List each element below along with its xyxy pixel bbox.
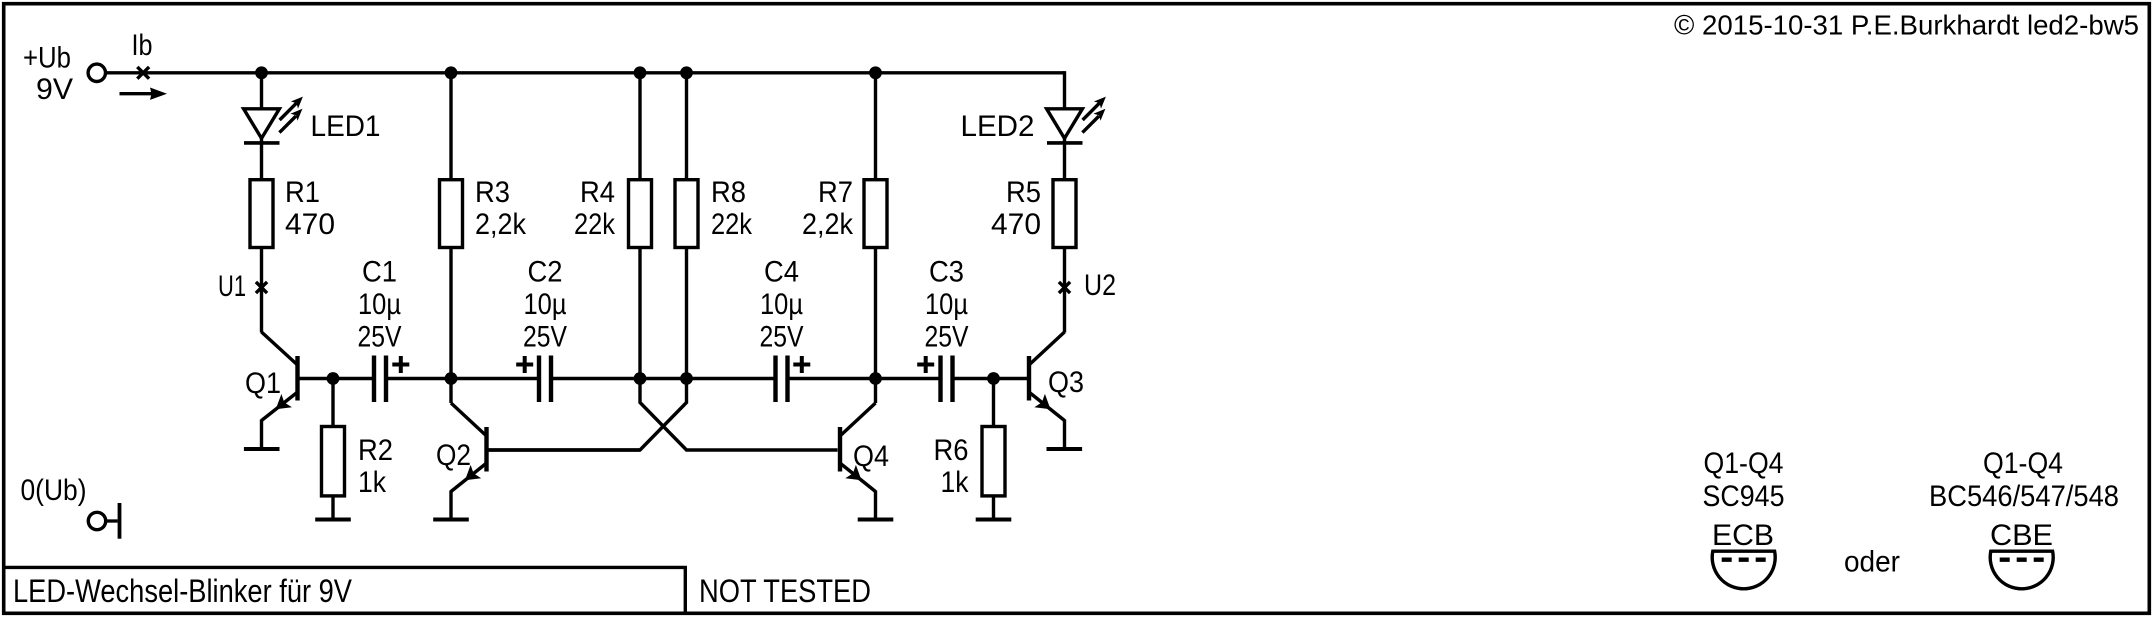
copyright: [1674, 10, 2139, 41]
label Q3: [1048, 366, 1084, 399]
node LED1 top: [255, 66, 268, 79]
polarity + of C4: [793, 356, 810, 373]
svg-text:25V: 25V: [523, 321, 567, 354]
wire R8 bottom: [685, 249, 688, 379]
node R7 top: [869, 66, 882, 79]
legend Q1-Q4 SC945: [1703, 447, 1785, 552]
wire R4 top: [638, 73, 641, 180]
ground Q4: [858, 518, 894, 522]
wire R2 top: [331, 379, 334, 427]
node R3 top: [445, 66, 458, 79]
wire rail corner to LED2: [1063, 71, 1066, 179]
current arrow Ib: [120, 88, 168, 100]
label LED1: [311, 110, 381, 143]
wire R3 bottom: [449, 249, 452, 379]
LED1 light arrow 2: [279, 109, 302, 133]
svg-text:Q3: Q3: [1048, 366, 1084, 399]
terminal 0(Ub): [88, 503, 119, 539]
LED1 diode: [244, 109, 280, 143]
svg-text:470: 470: [285, 208, 335, 241]
svg-text:LED1: LED1: [311, 110, 381, 143]
svg-text:Q1-Q4: Q1-Q4: [1983, 447, 2063, 480]
svg-text:R4: R4: [580, 176, 615, 209]
svg-text:R2: R2: [358, 434, 393, 467]
svg-text:R3: R3: [475, 176, 510, 209]
ground R2: [315, 518, 351, 522]
label R6: [934, 434, 970, 499]
label Q1: [245, 367, 281, 400]
label Ib: [132, 29, 153, 62]
label R7: [802, 176, 854, 241]
svg-text:25V: 25V: [925, 321, 969, 354]
svg-text:C3: C3: [929, 256, 964, 289]
svg-text:25V: 25V: [358, 321, 402, 354]
svg-text:R1: R1: [285, 176, 320, 209]
wire R5 to Q3 collector: [1063, 249, 1066, 333]
label Q4: [853, 440, 889, 473]
wire Q2 collector stub: [449, 379, 452, 404]
wire R4 bottom: [638, 249, 641, 379]
node R7 / Q4 collector / C4 / C3: [869, 372, 882, 385]
svg-text:C4: C4: [764, 256, 799, 289]
label R2: [358, 434, 393, 499]
LED2 light arrow 2: [1082, 109, 1105, 133]
measuring point U1 x-mark: [256, 282, 267, 293]
title text: [13, 573, 353, 609]
package outline BC546 (CBE): [1990, 551, 2053, 589]
svg-text:U2: U2: [1084, 269, 1116, 302]
svg-text:LED-Wechsel-Blinker für 9V: LED-Wechsel-Blinker für 9V: [13, 573, 353, 609]
svg-text:© 2015-10-31 P.E.Burkhardt led: © 2015-10-31 P.E.Burkhardt led2-bw5: [1674, 10, 2139, 41]
polarity + of C1: [392, 356, 409, 373]
LED2 diode: [1047, 109, 1083, 143]
wire R3 top: [449, 73, 452, 180]
label U1: [218, 270, 246, 303]
transistor Q4: [840, 403, 876, 520]
svg-text:9V: 9V: [36, 73, 73, 106]
svg-text:2,2k: 2,2k: [475, 208, 527, 241]
svg-text:SC945: SC945: [1703, 480, 1785, 513]
resistor R7: [864, 180, 887, 248]
wire cross-coupling right-to-left: [489, 379, 687, 451]
svg-text:R8: R8: [711, 176, 746, 209]
transistor Q1: [262, 332, 298, 449]
label C2: [523, 256, 567, 354]
terminal +Ub: [88, 64, 105, 81]
svg-text:10µ: 10µ: [925, 288, 968, 321]
svg-text:+Ub: +Ub: [23, 42, 71, 75]
note NOT TESTED: [699, 573, 871, 609]
label 0(Ub): [21, 474, 87, 507]
svg-text:Q1-Q4: Q1-Q4: [1704, 447, 1784, 480]
wire R6 top: [992, 379, 995, 427]
wire R1 to Q1 collector: [260, 249, 263, 333]
LED2 light arrow 1: [1083, 97, 1106, 120]
wire C1 to node R3: [388, 377, 537, 380]
wire R8 top: [685, 73, 688, 180]
wire Q4 collector stub: [874, 379, 877, 404]
label C4: [760, 256, 804, 354]
svg-text:C2: C2: [528, 256, 563, 289]
svg-text:R7: R7: [818, 176, 853, 209]
ground Q1: [244, 447, 280, 451]
svg-text:C1: C1: [362, 256, 397, 289]
label R5: [991, 176, 1041, 241]
ground R6: [976, 518, 1012, 522]
resistor R5: [1053, 180, 1076, 248]
wire cross-coupling left-to-right: [640, 379, 838, 451]
ground Q2: [433, 518, 469, 522]
node R8 / C4 / cross-wire: [680, 372, 693, 385]
label R4: [574, 176, 616, 241]
label C3: [925, 256, 969, 354]
label R1: [285, 176, 335, 241]
node R8 top: [680, 66, 693, 79]
resistor R1: [250, 180, 273, 248]
svg-text:U1: U1: [218, 270, 246, 303]
svg-text:2,2k: 2,2k: [802, 208, 854, 241]
wire R2 bottom: [331, 496, 334, 520]
wire LED1 anode: [260, 73, 263, 179]
wire R7 top: [874, 73, 877, 180]
svg-text:0(Ub): 0(Ub): [21, 474, 87, 507]
label R8: [711, 176, 753, 241]
svg-text:10µ: 10µ: [358, 288, 401, 321]
capacitor C2: [539, 356, 551, 403]
transistor Q2: [451, 403, 487, 520]
svg-text:10µ: 10µ: [524, 288, 567, 321]
node Q1 base / R2 / C1: [327, 372, 340, 385]
resistor R8: [675, 180, 698, 248]
capacitor C4: [776, 356, 788, 403]
measuring point U2 x-mark: [1059, 282, 1070, 293]
label oder: [1844, 546, 1900, 579]
wire top rail: [105, 71, 1065, 74]
legend Q1-Q4 BC546/547/548: [1929, 447, 2119, 552]
capacitor C1: [374, 356, 386, 403]
polarity + of C3: [917, 356, 934, 373]
label C1: [358, 256, 402, 354]
LED1 light arrow 1: [280, 97, 303, 120]
svg-text:CBE: CBE: [1990, 519, 2053, 552]
wire Q1 base: [300, 377, 373, 380]
label LED2: [961, 110, 1035, 143]
wire C3 to Q3 base: [955, 377, 1028, 380]
svg-text:R6: R6: [934, 434, 969, 467]
svg-text:R5: R5: [1006, 176, 1041, 209]
svg-text:1k: 1k: [941, 466, 970, 499]
label Q2: [436, 439, 471, 472]
svg-text:BC546/547/548: BC546/547/548: [1929, 480, 2119, 513]
ground Q3: [1047, 447, 1083, 451]
svg-text:1k: 1k: [358, 466, 387, 499]
svg-text:Ib: Ib: [132, 29, 153, 62]
node R3 / Q2 collector / C1 / C2: [445, 372, 458, 385]
label +Ub: [23, 42, 71, 75]
capacitor C3: [941, 356, 953, 403]
measuring point Ib x-mark: [137, 67, 149, 79]
wire R7 bottom: [874, 249, 877, 379]
wire C2 to C4: [553, 377, 774, 380]
svg-text:Q4: Q4: [853, 440, 889, 473]
label 9V: [36, 73, 73, 106]
resistor R2: [322, 427, 345, 496]
svg-text:LED2: LED2: [961, 110, 1035, 143]
polarity + of C2: [516, 356, 533, 373]
svg-text:oder: oder: [1844, 546, 1900, 579]
svg-text:Q1: Q1: [245, 367, 281, 400]
svg-text:Q2: Q2: [436, 439, 471, 472]
label R3: [475, 176, 527, 241]
node R4 / C2 / cross-wire: [634, 372, 647, 385]
svg-text:22k: 22k: [711, 208, 753, 241]
label U2: [1084, 269, 1116, 302]
node R4 top: [634, 66, 647, 79]
wire C4 to C3: [790, 377, 939, 380]
svg-text:470: 470: [991, 208, 1041, 241]
svg-text:NOT TESTED: NOT TESTED: [699, 573, 871, 609]
svg-text:ECB: ECB: [1712, 519, 1774, 552]
wire R6 bottom: [992, 496, 995, 520]
svg-text:10µ: 10µ: [760, 288, 803, 321]
wire node to C1: [0, 0, 1, 1]
resistor R6: [982, 427, 1005, 496]
svg-text:25V: 25V: [760, 321, 804, 354]
svg-text:22k: 22k: [574, 208, 616, 241]
wire Q2 base (cross-coupled): [489, 448, 641, 451]
resistor R4: [629, 180, 652, 248]
title box: [3, 567, 687, 613]
node R6 top: [987, 372, 1000, 385]
resistor R3: [440, 180, 463, 248]
package outline SC945 (ECB): [1712, 551, 1775, 589]
transistor Q3: [1029, 332, 1065, 449]
